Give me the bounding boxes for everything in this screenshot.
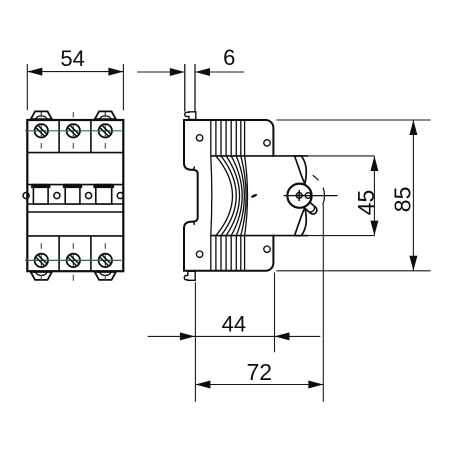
- phillips screw on knob: [294, 190, 305, 201]
- screw slots bottom row: [36, 255, 110, 265]
- mid band front edge gap eraser: [272, 157, 275, 235]
- side housing ribs top band: [211, 120, 245, 156]
- face slot mark: [250, 193, 257, 198]
- dimension 85: [276, 120, 430, 271]
- mid band bottom edge: [211, 235, 308, 237]
- extension line from body rear bottom: [194, 282, 196, 402]
- svg-text:72: 72: [247, 359, 273, 385]
- rail claw tip curls: [192, 166, 194, 225]
- svg-text:6: 6: [223, 45, 235, 70]
- handle paddle upper wing: [295, 156, 307, 184]
- svg-text:85: 85: [390, 187, 416, 213]
- green centre marks top row: [25, 112, 122, 148]
- dimension 45: [308, 156, 374, 236]
- bottom mounting tab pole 1: [31, 272, 52, 280]
- toggle knob: [287, 184, 311, 208]
- bottom mounting tab pole 3: [95, 272, 116, 280]
- mid band contour arcs: [211, 156, 248, 236]
- side housing ribs bottom band: [211, 236, 245, 271]
- dimension 72: [195, 384, 323, 386]
- extension line from knob centre down: [322, 205, 324, 402]
- toggle lever: [303, 200, 319, 215]
- side view body outline: [184, 120, 273, 271]
- screw slots top row: [36, 126, 110, 136]
- top mounting tab pole 3: [95, 111, 116, 119]
- rotation arc segments: [313, 175, 325, 204]
- handle paddle lower wing: [295, 208, 307, 236]
- front view body outline: [27, 120, 123, 271]
- svg-text:44: 44: [222, 312, 246, 337]
- terminal screw circles bottom row: [35, 254, 112, 267]
- rivet circles: [196, 135, 270, 258]
- interpole link holes: [23, 193, 123, 199]
- svg-text:45: 45: [353, 190, 379, 216]
- svg-text:54: 54: [60, 46, 84, 71]
- DIN rail edge lines (6mm): [185, 64, 195, 112]
- dimension 44: [148, 335, 321, 337]
- front view horizontal face lines: [27, 153, 123, 236]
- dimension 54: [27, 64, 123, 110]
- terminal screw circles top row: [35, 124, 112, 137]
- mid band top edge: [211, 155, 308, 157]
- toggle handle dark tops: [31, 184, 114, 188]
- side view top clip: [185, 112, 196, 120]
- knob centreline: [284, 195, 338, 197]
- toggle handles band: [33, 185, 111, 204]
- extension line from body front bottom: [274, 272, 276, 352]
- front view pole separator lines: [59, 120, 91, 271]
- side view bottom clip: [184, 271, 195, 280]
- knob side circle: [305, 193, 311, 199]
- top mounting tab pole 1: [31, 111, 52, 119]
- dimension 6: [137, 71, 244, 73]
- green centre marks bottom row: [25, 243, 122, 280]
